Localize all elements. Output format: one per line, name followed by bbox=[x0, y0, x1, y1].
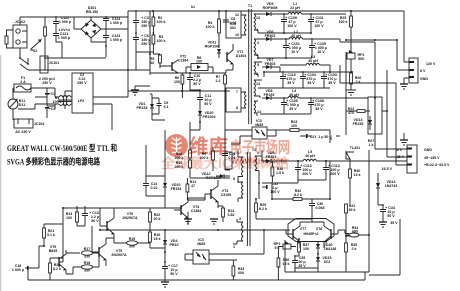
capacitor C6 bbox=[133, 32, 151, 52]
capacitor C5 bbox=[45, 88, 55, 106]
shield box right bbox=[368, 97, 382, 134]
diode VD13 bbox=[353, 116, 372, 130]
capacitor C14 bbox=[143, 180, 158, 192]
svg-text:35 V: 35 V bbox=[390, 221, 398, 225]
IC2 TL431 bbox=[346, 146, 360, 165]
svg-text:1 000 p: 1 000 p bbox=[58, 36, 71, 40]
resistor R14 bbox=[218, 206, 235, 222]
T2 secondary S1 bbox=[255, 151, 262, 183]
resistor R5 bbox=[150, 54, 162, 68]
capacitor C10 bbox=[187, 73, 201, 86]
ground connector bbox=[400, 78, 409, 89]
resistor R16 bbox=[149, 232, 161, 248]
diode VD30 bbox=[316, 241, 336, 254]
svg-text:2: 2 bbox=[257, 151, 259, 155]
resistor R20 bbox=[49, 258, 63, 280]
T2 primary bbox=[233, 150, 243, 183]
svg-text:601: 601 bbox=[230, 26, 236, 30]
svg-text:T2: T2 bbox=[252, 148, 256, 152]
svg-text:1 000 p: 1 000 p bbox=[110, 21, 123, 25]
wire feedback joins bbox=[44, 206, 150, 274]
wire 8V rail bbox=[340, 14, 409, 70]
svg-text:100: 100 bbox=[291, 124, 297, 128]
resistor R37 bbox=[298, 239, 310, 256]
svg-text:PR1004: PR1004 bbox=[203, 115, 216, 119]
capacitor C2 bbox=[77, 73, 87, 85]
resistor R1 bbox=[53, 96, 67, 105]
svg-text:RGP30M: RGP30M bbox=[263, 6, 278, 10]
resistor R22b bbox=[149, 208, 161, 232]
svg-text:35 V: 35 V bbox=[315, 107, 323, 111]
svg-text:250 V: 250 V bbox=[42, 81, 52, 85]
svg-text:22 μH: 22 μH bbox=[290, 6, 300, 10]
wire S1 return bbox=[258, 30, 311, 33]
switch JC101 bbox=[19, 48, 59, 70]
winding box aux bbox=[186, 64, 213, 74]
inductor L3 bbox=[280, 55, 330, 72]
ground right mid bbox=[400, 133, 408, 145]
diode VD4 bbox=[163, 230, 179, 252]
transistor VT8 bbox=[303, 222, 338, 248]
resistor R7 bbox=[216, 73, 227, 112]
svg-text:VT7: VT7 bbox=[300, 227, 307, 231]
svg-text:2.2: 2.2 bbox=[216, 79, 221, 83]
svg-text:RGP10M: RGP10M bbox=[205, 45, 220, 49]
inductor L4 bbox=[284, 89, 345, 98]
resistor R30 bbox=[271, 161, 284, 182]
svg-text:2 k: 2 k bbox=[352, 247, 357, 251]
T1 primary winding bbox=[241, 15, 246, 35]
svg-text:4N35: 4N35 bbox=[255, 123, 264, 127]
svg-text:33: 33 bbox=[150, 61, 154, 65]
ground mid bbox=[131, 86, 150, 95]
svg-text:100 k: 100 k bbox=[200, 156, 209, 160]
transistor VT1 bbox=[227, 44, 246, 70]
svg-text:JC101: JC101 bbox=[49, 61, 60, 65]
svg-text:7: 7 bbox=[233, 153, 235, 157]
T1 secondary S2 bbox=[254, 39, 262, 58]
svg-text:45~135 V: 45~135 V bbox=[424, 156, 440, 160]
control verticals bbox=[152, 112, 225, 178]
svg-text:100: 100 bbox=[303, 247, 309, 251]
wire S2 return bbox=[258, 57, 312, 59]
resistor R1a bbox=[44, 27, 47, 58]
svg-text:120 V: 120 V bbox=[426, 62, 436, 66]
capacitor C101 bbox=[283, 38, 301, 58]
transistor VT3 bbox=[205, 180, 231, 208]
inductor LF2 bbox=[55, 96, 72, 106]
svg-text:FR155: FR155 bbox=[353, 122, 364, 126]
svg-text:维库: 维库 bbox=[189, 135, 228, 158]
node k1 bbox=[191, 5, 404, 11]
resistor R29 bbox=[255, 199, 267, 219]
wire VT1 emitter bbox=[153, 54, 233, 73]
svg-text:14: 14 bbox=[257, 110, 261, 114]
svg-text:25 V: 25 V bbox=[397, 155, 405, 159]
inductor L5 bbox=[296, 150, 407, 161]
ground mid-bottom-1 bbox=[184, 212, 192, 224]
svg-text:RB-156: RB-156 bbox=[86, 10, 98, 14]
wire control joins bbox=[146, 145, 230, 208]
resistor R10 bbox=[175, 158, 192, 178]
ground 35V bbox=[379, 221, 398, 227]
capacitor C124 bbox=[103, 16, 123, 29]
svg-text:100 k: 100 k bbox=[157, 39, 166, 43]
diode VD14 bbox=[376, 173, 397, 205]
svg-text:+B:22.4~33.5 V: +B:22.4~33.5 V bbox=[424, 163, 450, 167]
capacitor C13 bbox=[82, 208, 99, 226]
resistor R15b bbox=[114, 237, 150, 249]
inductor L1 bbox=[284, 2, 346, 14]
svg-text:JC104: JC104 bbox=[34, 122, 45, 126]
bottom connector JC3 bbox=[382, 145, 450, 173]
capacitor C109 bbox=[281, 13, 297, 30]
wire cross mid right bbox=[330, 42, 387, 135]
ground C17 bbox=[161, 278, 169, 287]
svg-text:3: 3 bbox=[257, 41, 259, 45]
svg-text:35 V: 35 V bbox=[328, 81, 336, 85]
thermistor D11 bbox=[8, 98, 25, 109]
capacitor C4 bbox=[45, 107, 55, 118]
feedback top rail bbox=[28, 208, 369, 280]
svg-text:39 k: 39 k bbox=[349, 208, 356, 212]
svg-text:8: 8 bbox=[233, 177, 235, 181]
svg-text:1 000 p: 1 000 p bbox=[110, 38, 123, 42]
connector JC103 bbox=[40, 56, 48, 73]
svg-text:160 V: 160 V bbox=[314, 24, 324, 28]
svg-text:20 k: 20 k bbox=[154, 217, 161, 221]
svg-text:100 k: 100 k bbox=[53, 100, 62, 104]
optocoupler IC3a bbox=[225, 119, 276, 144]
svg-text:GND: GND bbox=[420, 77, 428, 81]
scan edge bbox=[0, 55, 1, 291]
svg-text:200 k: 200 k bbox=[175, 165, 184, 169]
transformer T1 bbox=[248, 4, 252, 124]
resistor R25 bbox=[339, 10, 353, 52]
svg-text:电子市场网: 电子市场网 bbox=[230, 138, 290, 157]
svg-text:200 V: 200 V bbox=[302, 172, 312, 176]
svg-text:R17: R17 bbox=[84, 247, 91, 251]
T1 winding aux bbox=[226, 88, 246, 112]
svg-text:1: 1 bbox=[233, 245, 235, 249]
svg-text:250 V: 250 V bbox=[141, 42, 151, 46]
svg-text:FR303: FR303 bbox=[266, 155, 277, 159]
svg-text:50 V: 50 V bbox=[91, 219, 99, 223]
T2 aux winding bbox=[233, 217, 243, 249]
wire output stage joins bbox=[278, 216, 345, 272]
capacitor C34 bbox=[380, 204, 395, 222]
relay JC102 bbox=[13, 20, 27, 48]
svg-text:2N2907A: 2N2907A bbox=[111, 253, 127, 257]
svg-text:100 k: 100 k bbox=[339, 20, 348, 24]
svg-text:100: 100 bbox=[174, 80, 180, 84]
resistor R11b bbox=[186, 178, 196, 200]
svg-text:C1384: C1384 bbox=[191, 209, 202, 213]
capacitor C18 bbox=[12, 264, 30, 272]
transistor VT4 bbox=[174, 198, 201, 224]
transformer T2 bbox=[247, 148, 256, 246]
resistor R3 bbox=[152, 32, 166, 52]
svg-text:15 k: 15 k bbox=[283, 262, 290, 266]
svg-text:8.2 k: 8.2 k bbox=[294, 193, 302, 197]
svg-text:FR153: FR153 bbox=[171, 187, 182, 191]
capacitor C110 bbox=[280, 71, 296, 88]
resistor R32 bbox=[272, 189, 330, 200]
capacitor C8 bbox=[223, 11, 237, 30]
wire lower mid joins bbox=[256, 143, 330, 219]
wire C6 bottom bbox=[136, 52, 153, 70]
watermark logo circle bbox=[165, 134, 188, 157]
wire band3 bottom rail bbox=[258, 87, 330, 89]
svg-text:0.22: 0.22 bbox=[151, 186, 158, 190]
wire filter out bbox=[93, 70, 128, 130]
svg-text:TL431: TL431 bbox=[350, 146, 360, 150]
transistor VT5 bbox=[92, 238, 127, 266]
diode VD9 bbox=[262, 151, 296, 163]
capacitor C106 bbox=[281, 97, 299, 114]
diode VD12 bbox=[202, 172, 231, 180]
svg-text:50 V: 50 V bbox=[387, 214, 395, 218]
capacitor C3 bbox=[133, 10, 151, 33]
line filter box bbox=[72, 73, 93, 113]
resistor R28 bbox=[175, 150, 192, 160]
svg-text:15 k: 15 k bbox=[154, 237, 161, 241]
svg-text:6C2: 6C2 bbox=[324, 260, 331, 264]
svg-text:R15: R15 bbox=[129, 237, 136, 241]
wire bridge output bbox=[91, 29, 128, 57]
T1 secondary S5 bbox=[254, 101, 261, 116]
capacitor C112 bbox=[295, 160, 312, 180]
connector JC104 bbox=[14, 119, 44, 134]
svg-text:AC 230 V: AC 230 V bbox=[15, 130, 31, 134]
svg-text:VT8: VT8 bbox=[316, 227, 323, 231]
wires AC input bbox=[13, 88, 72, 120]
potentiometer RP1 bbox=[347, 50, 365, 73]
svg-text:4: 4 bbox=[256, 28, 258, 32]
svg-text:470: 470 bbox=[348, 111, 354, 115]
box T2 left bbox=[225, 152, 232, 169]
T2 winding extra bbox=[238, 178, 243, 202]
capacitor C104 bbox=[300, 71, 316, 88]
svg-text:8 V: 8 V bbox=[420, 69, 426, 73]
svg-text:50 V: 50 V bbox=[193, 82, 201, 86]
svg-text:14: 14 bbox=[256, 82, 260, 86]
inductor L2 bbox=[284, 30, 340, 42]
capacitor C32 bbox=[262, 182, 280, 194]
resistor R26 bbox=[350, 73, 362, 90]
resistor R6 bbox=[174, 73, 184, 98]
svg-text:T1: T1 bbox=[248, 4, 252, 8]
resistor R36 bbox=[277, 249, 290, 280]
svg-text:2 A: 2 A bbox=[20, 80, 26, 84]
svg-text:100 k: 100 k bbox=[157, 20, 166, 24]
svg-text:3: 3 bbox=[239, 217, 241, 221]
T1 secondary S4 bbox=[254, 80, 262, 98]
svg-text:13: 13 bbox=[256, 16, 260, 20]
svg-text:12: 12 bbox=[235, 13, 239, 17]
svg-text:+C4: +C4 bbox=[49, 107, 56, 111]
resistor R4 bbox=[206, 10, 221, 48]
svg-text:1 000 p: 1 000 p bbox=[12, 268, 25, 272]
svg-text:16.5 V: 16.5 V bbox=[382, 167, 393, 171]
transistor VT2 bbox=[167, 55, 188, 74]
capacitor C105 bbox=[309, 38, 327, 58]
svg-text:40 μH: 40 μH bbox=[308, 59, 318, 63]
resistor R23 bbox=[276, 120, 330, 131]
fuse F1 bbox=[14, 76, 31, 92]
svg-text:k1: k1 bbox=[191, 5, 195, 9]
transistor VT6 bbox=[100, 212, 138, 238]
resistor R9 bbox=[200, 147, 215, 171]
transistor VT7 bbox=[286, 222, 306, 248]
package outline VT7 VT8 bbox=[288, 219, 334, 242]
svg-text:35 V: 35 V bbox=[287, 81, 295, 85]
svg-text:0.1: 0.1 bbox=[164, 105, 169, 109]
node K bbox=[330, 130, 340, 143]
varistor S2 bbox=[30, 38, 42, 53]
svg-text:7: 7 bbox=[236, 90, 238, 94]
svg-text:D11: D11 bbox=[19, 103, 25, 107]
capacitor C103 bbox=[321, 71, 337, 88]
wire right output bbox=[345, 230, 349, 234]
capacitor C30 bbox=[309, 199, 325, 212]
svg-text:SVGA 多频彩色显示器的电源电路: SVGA 多频彩色显示器的电源电路 bbox=[7, 156, 100, 167]
svg-text:100: 100 bbox=[66, 216, 72, 220]
svg-text:10: 10 bbox=[235, 33, 239, 37]
transistor VT9 bbox=[49, 245, 67, 274]
bridge rectifier D101 bbox=[81, 6, 106, 42]
wire top rail to connector bbox=[404, 11, 409, 62]
svg-text:250 V: 250 V bbox=[77, 81, 87, 85]
svg-text:1N4743: 1N4743 bbox=[385, 184, 398, 188]
svg-text:B845: B845 bbox=[49, 249, 58, 253]
diode VD5 bbox=[262, 2, 284, 16]
resistor R27 bbox=[368, 139, 375, 147]
resistor R13 bbox=[66, 208, 79, 226]
svg-text:1 000 p: 1 000 p bbox=[59, 20, 72, 24]
capacitor C123 bbox=[103, 28, 123, 46]
resistor R2 bbox=[152, 11, 166, 33]
svg-text:100 k: 100 k bbox=[206, 25, 215, 29]
wire lower rail left bbox=[45, 42, 128, 70]
svg-text:5.1 k: 5.1 k bbox=[47, 233, 55, 237]
svg-text:1 k: 1 k bbox=[369, 143, 374, 147]
resistor R21b bbox=[39, 224, 55, 246]
svg-text:47: 47 bbox=[191, 184, 195, 188]
svg-text:35 V: 35 V bbox=[307, 81, 315, 85]
diode VD15 bbox=[316, 254, 332, 268]
wire band3 top rail bbox=[264, 72, 352, 77]
output box bbox=[285, 150, 400, 275]
capacitor C15 bbox=[222, 150, 236, 162]
connector JC2 top bbox=[409, 58, 436, 83]
svg-text:250 V: 250 V bbox=[141, 24, 151, 28]
svg-text:LF2: LF2 bbox=[78, 99, 84, 103]
diode VD8 bbox=[262, 89, 284, 100]
potentiometer RP2 bbox=[274, 241, 297, 250]
svg-text:2: 2 bbox=[256, 72, 258, 76]
ground R26 bbox=[346, 90, 356, 95]
svg-text:5: 5 bbox=[257, 63, 259, 67]
svg-text:PR10: PR10 bbox=[170, 243, 179, 247]
svg-text:16 V: 16 V bbox=[291, 50, 299, 54]
svg-text:330: 330 bbox=[84, 269, 90, 273]
label C-row bbox=[39, 77, 55, 85]
svg-text:40 μH: 40 μH bbox=[305, 154, 315, 158]
resistor R35 bbox=[345, 235, 358, 272]
ground mid-bottom-2 bbox=[210, 219, 218, 224]
svg-text:35 V: 35 V bbox=[298, 264, 306, 268]
svg-text:S2: S2 bbox=[33, 49, 37, 53]
svg-text:0.82: 0.82 bbox=[228, 213, 235, 217]
svg-text:GREAT WALL CW-500/500E 型 TTL 和: GREAT WALL CW-500/500E 型 TTL 和 bbox=[7, 142, 117, 153]
diode VD20 bbox=[198, 110, 216, 122]
svg-text:+C5: +C5 bbox=[49, 92, 56, 96]
svg-text:160 V: 160 V bbox=[287, 24, 297, 28]
T1 secondary S3 bbox=[254, 62, 262, 77]
resistor R6b 100 bbox=[178, 56, 202, 73]
capacitor C11 bbox=[197, 89, 212, 110]
resistor R34 bbox=[346, 226, 369, 237]
svg-text:50 V: 50 V bbox=[170, 272, 178, 276]
wire top-left rail bbox=[20, 17, 128, 29]
svg-text:100: 100 bbox=[196, 60, 202, 64]
capacitor C21 bbox=[300, 134, 332, 139]
resistor R24 bbox=[346, 107, 370, 115]
resistor R40 bbox=[349, 165, 361, 204]
svg-text:330: 330 bbox=[84, 255, 90, 259]
capacitor C17 bbox=[162, 252, 178, 278]
capacitor C122 bbox=[53, 16, 72, 27]
svg-text:1.5 k: 1.5 k bbox=[276, 171, 284, 175]
svg-text:8: 8 bbox=[236, 106, 238, 110]
svg-text:1: 1 bbox=[256, 53, 258, 57]
resistor R33 bbox=[232, 260, 244, 280]
svg-text:1N4148: 1N4148 bbox=[324, 247, 337, 251]
diode VD1 bbox=[137, 98, 155, 114]
svg-text:50 V: 50 V bbox=[204, 102, 212, 106]
svg-text:8.2 k: 8.2 k bbox=[259, 207, 267, 211]
svg-text:PR153: PR153 bbox=[137, 106, 148, 110]
svg-text:FR153: FR153 bbox=[264, 93, 275, 97]
diode VD6 bbox=[262, 30, 284, 41]
svg-text:300: 300 bbox=[129, 245, 135, 249]
svg-text:200 V: 200 V bbox=[330, 172, 340, 176]
svg-text:0.068: 0.068 bbox=[316, 206, 325, 210]
diode VD7 bbox=[262, 58, 280, 72]
svg-text:8 V: 8 V bbox=[397, 148, 403, 152]
svg-text:JC102: JC102 bbox=[15, 20, 26, 24]
svg-text:500: 500 bbox=[358, 57, 364, 61]
T1 secondary S1 bbox=[254, 14, 262, 33]
capacitor C108 bbox=[308, 97, 324, 114]
right column rails bbox=[340, 42, 407, 165]
diode VD10 bbox=[163, 178, 181, 196]
optocoupler IC3b bbox=[185, 230, 264, 264]
resistor R15 bbox=[5, 30, 13, 48]
IC1 block bbox=[226, 11, 241, 38]
svg-text:35 V: 35 V bbox=[289, 107, 297, 111]
resistor R17 bbox=[66, 247, 99, 259]
wire top mid band bbox=[128, 73, 230, 91]
svg-text:600: 600 bbox=[238, 271, 244, 275]
caption text bbox=[7, 142, 117, 167]
svg-text:R18: R18 bbox=[84, 261, 91, 265]
svg-text:2N2907A: 2N2907A bbox=[122, 216, 138, 220]
svg-text:13 k: 13 k bbox=[354, 173, 361, 177]
svg-text:200 k: 200 k bbox=[175, 156, 184, 160]
diode VD11 bbox=[205, 41, 221, 59]
